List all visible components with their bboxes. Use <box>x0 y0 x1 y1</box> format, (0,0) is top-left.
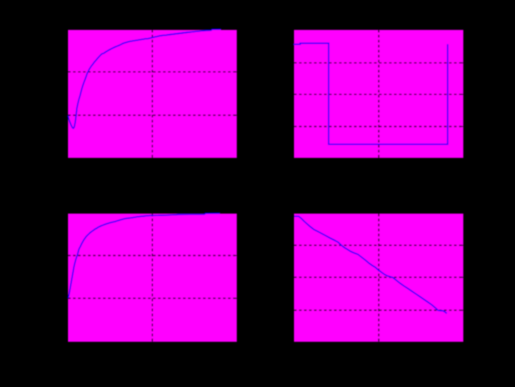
subplot 2 horizontal gridline 1/4 <box>294 62 463 64</box>
subplot 2 (top-right) axes background <box>294 30 463 158</box>
subplot 4 tick marks <box>294 214 463 342</box>
subplot 2 tick marks <box>294 30 463 158</box>
subplot 3 horizontal gridline 2/3 <box>68 297 237 299</box>
subplot 4 horizontal gridline 1/4 <box>294 244 463 246</box>
subplot 4 vertical gridline x-mid <box>378 214 380 342</box>
subplot 4 blue curve (descending ramp) <box>294 216 447 313</box>
subplot 2 horizontal gridline 1/2 <box>294 93 463 95</box>
subplot 4 horizontal gridline 1/2 <box>294 276 463 278</box>
subplot 4 (bottom-right) axes background <box>294 214 463 342</box>
subplot 1 (top-left) axes background <box>68 30 237 158</box>
subplot 3 blue curve (fast saturating rise) <box>68 213 220 298</box>
subplot 1 blue curve (dip then saturating rise) <box>68 29 221 128</box>
subplot 3 vertical gridline x-mid <box>151 214 153 342</box>
subplot 2 vertical gridline x-mid <box>378 30 380 158</box>
subplot 1 vertical gridline x-mid <box>151 30 153 158</box>
subplot 1 horizontal gridline 2/3 <box>68 114 237 116</box>
subplot 3 tick marks <box>68 214 237 342</box>
subplot 1 horizontal gridline 1/3 <box>68 71 237 73</box>
subplot 4 horizontal gridline 3/4 <box>294 309 463 311</box>
subplot 3 horizontal gridline 1/3 <box>68 255 237 257</box>
subplot 3 (bottom-left) axes background <box>68 214 237 342</box>
subplot 2 horizontal gridline 3/4 <box>294 126 463 128</box>
subplot 2 blue curve (square pulse) <box>293 43 447 144</box>
subplot 1 tick marks <box>68 30 237 158</box>
